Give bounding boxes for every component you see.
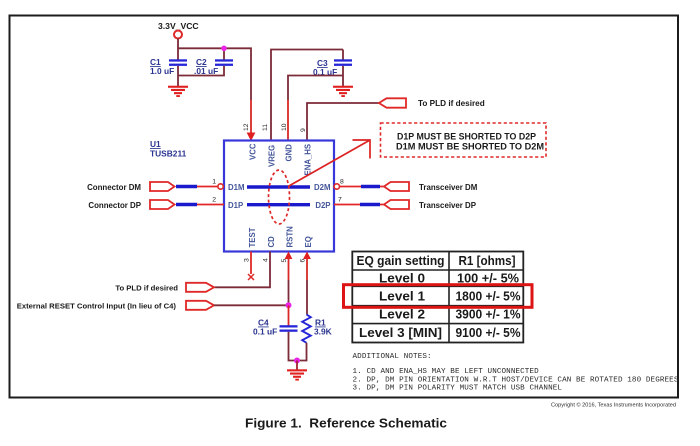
pin number 12 [243,123,250,131]
svg-text:D1P MUST BE SHORTED TO D2P: D1P MUST BE SHORTED TO D2P [397,132,536,142]
pin name EQ [304,236,313,247]
svg-text:0.1 uF: 0.1 uF [253,327,277,337]
junction dot ground node [294,358,300,364]
svg-text:100 +/- 5%: 100 +/- 5% [457,270,519,285]
table row Level 1 [379,288,521,303]
wire VREG pin 11 up and right to C3 [271,50,343,141]
R1 value label [314,318,332,337]
svg-text:3. DP, DM PIN POLARITY MUST MA: 3. DP, DM PIN POLARITY MUST MATCH USB CH… [353,384,563,392]
connector symbol Transceiver DM [384,182,409,191]
pin 12 arrowhead into IC [247,133,256,142]
svg-text:Connector DM: Connector DM [87,183,141,192]
EQ gain table grid [352,252,523,343]
svg-text:3.9K: 3.9K [314,327,332,337]
table row Level 0 [379,270,519,285]
svg-text:.01 uF: .01 uF [194,66,218,76]
pin number 2 [212,197,216,204]
svg-text:4: 4 [263,258,270,262]
wire pin 2 blue segment [176,203,197,207]
dashed note box [381,123,547,157]
svg-text:RSTN: RSTN [286,226,295,248]
pin 6 arrowhead into IC [303,252,311,260]
connector symbol To PLD (bottom) [186,283,214,292]
wire pin 5 RSTN down [288,257,290,305]
capacitor C2 [215,59,233,66]
wire C3 top [342,50,344,61]
ground under C3 [333,86,353,97]
pin name GND [285,144,294,162]
pin 3 no-connect X [248,274,254,280]
svg-text:GND: GND [285,144,294,162]
C1 value label [150,57,174,76]
pin name CD [267,236,276,248]
svg-text:Level 3 [MIN]: Level 3 [MIN] [359,325,442,340]
svg-text:Level 2: Level 2 [379,307,425,322]
wire C1 bottom to ground [177,66,179,86]
svg-text:ENA_HS: ENA_HS [304,144,313,176]
wire pin 2 [197,204,224,206]
wire ground stub [296,361,298,370]
wire C4 bottom [289,332,298,361]
resistor R1 zigzag [302,315,311,343]
svg-text:To PLD if desired: To PLD if desired [115,283,178,292]
connector symbol Connector DP [150,200,175,209]
svg-text:TUSB211: TUSB211 [150,149,187,159]
svg-text:6: 6 [300,259,307,263]
pin name TEST [248,227,257,247]
connector symbol Transceiver DP [384,200,409,209]
capacitor C4 [280,325,298,332]
wire GND pin 10 up and right to C3 ground net [288,76,343,141]
wire pin 1 blue segment [176,185,197,189]
svg-text:U1: U1 [150,139,161,149]
C4 value label [253,318,277,337]
pin name VCC [249,143,258,160]
svg-text:Transceiver DP: Transceiver DP [419,201,476,210]
label Connector DM [87,183,141,192]
label External RESET Control Input [17,301,177,310]
figure caption [245,416,447,431]
internal bus D1P to D2P [247,203,310,206]
op-amp U1 TUSB211 IC body [224,141,334,252]
pin number 11 [262,124,269,131]
svg-text:2: 2 [212,197,216,204]
pin number 1 [212,179,216,186]
net 3.3V_VCC label [158,21,199,31]
svg-text:EQ gain setting: EQ gain setting [357,253,445,268]
pin number 3 [244,258,251,262]
annotation arrow to note box [288,140,370,187]
svg-text:D1P: D1P [228,201,243,210]
wire RSTN node down to C4 [288,305,290,325]
additional notes heading [353,353,432,361]
pin number 4 [263,258,270,262]
table header EQ gain setting [357,253,516,268]
junction dot RSTN node [286,302,292,308]
svg-text:10: 10 [281,123,288,131]
svg-text:3: 3 [244,258,251,262]
pin name D2P [315,201,330,210]
wire pin 8 [340,186,385,188]
VCC terminal circle [174,31,182,39]
svg-text:CD: CD [267,236,276,248]
svg-text:D1M MUST BE SHORTED TO D2M: D1M MUST BE SHORTED TO D2M [396,142,544,152]
C3 value label [313,58,337,77]
svg-text:D2P: D2P [315,201,330,210]
U1 reference label [150,139,187,159]
svg-text:Connector DP: Connector DP [88,201,141,210]
wire R1 bottom [297,343,307,361]
connector To PLD (top) [379,98,406,107]
pin 8 no-connect circle [334,184,339,189]
wire pin 7 [334,204,384,206]
svg-text:1800 +/- 5%: 1800 +/- 5% [456,288,521,303]
wire C3 bottom to ground [342,66,344,86]
pin number 6 [300,259,307,263]
junction dot C2/VCC [221,46,227,52]
svg-text:D2M: D2M [314,183,330,192]
capacitor C3 [334,59,352,66]
svg-text:VREG: VREG [268,145,277,167]
pin 5 arrowhead into IC [285,252,293,260]
wire pin 1 [197,186,218,188]
table row Level 3 [MIN] [359,325,521,340]
pin number 8 [340,179,344,186]
pin 1 no-connect circle [218,184,223,189]
svg-text:ADDITIONAL NOTES:: ADDITIONAL NOTES: [353,353,432,361]
svg-text:11: 11 [262,124,269,131]
wire VCC main horizontal to pin 12 [178,48,251,134]
wire VCC circle down to C1 [177,39,179,61]
svg-text:External RESET Control Input (: External RESET Control Input (In lieu of… [17,301,177,310]
wire pin 3 stub [250,252,252,275]
label Transceiver DM [419,183,478,192]
additional notes line 2 [353,376,679,384]
ground under C4/R1 [287,369,307,380]
svg-text:Figure 1. Reference Schematic: Figure 1. Reference Schematic [245,416,447,431]
svg-text:7: 7 [338,197,342,204]
pin name D2M [314,183,330,192]
svg-text:R1 [ohms]: R1 [ohms] [459,253,516,268]
svg-text:EQ: EQ [304,236,313,247]
svg-text:5: 5 [281,259,288,263]
svg-text:3.3V_VCC: 3.3V_VCC [158,21,199,31]
table row Level 2 [379,307,521,322]
table highlight box Level 1 [344,285,533,308]
connector symbol Connector DM [150,182,175,191]
wire pin 6 EQ down to R1 [306,257,308,315]
svg-text:2. DP, DM PIN ORIENTATION W.R.: 2. DP, DM PIN ORIENTATION W.R.T HOST/DEV… [353,376,679,384]
pin number 10 [281,123,288,131]
svg-text:TEST: TEST [248,227,257,247]
wire C2 bottom to C1 net [178,66,224,76]
svg-text:12: 12 [243,123,250,131]
svg-text:9100 +/- 5%: 9100 +/- 5% [456,325,521,340]
copyright line [551,402,676,409]
label To PLD if desired (top) [418,99,485,108]
pin name ENA_HS [304,144,313,176]
pin name D1M [228,183,244,192]
svg-text:8: 8 [340,179,344,186]
pin name VREG [268,145,277,167]
svg-text:Level 1: Level 1 [379,288,425,303]
additional notes line 1 [353,368,540,376]
label Connector DP [88,201,141,210]
svg-text:3900 +/- 1%: 3900 +/- 1% [456,307,521,322]
connector symbol External RESET [186,301,214,310]
wire C2 top branch [223,48,225,60]
svg-text:Transceiver DM: Transceiver DM [419,183,478,192]
svg-text:1: 1 [212,179,216,186]
additional notes line 3 [353,384,563,392]
label To PLD if desired (bottom) [115,283,178,292]
wire pin 4 CD down and left [215,252,271,288]
pin name D1P [228,201,243,210]
wire ENA_HS pin 9 up and right [307,103,379,140]
svg-text:1. CD AND ENA_HS MAY BE LEFT U: 1. CD AND ENA_HS MAY BE LEFT UNCONNECTED [353,368,540,376]
svg-text:To PLD if desired: To PLD if desired [418,99,485,108]
ground under C1 [168,86,188,97]
wire pin 7 blue segment [360,203,380,207]
capacitor C1 [169,59,187,66]
svg-text:VCC: VCC [249,143,258,160]
pin number 5 [281,259,288,263]
svg-text:Copyright © 2016, Texas Instru: Copyright © 2016, Texas Instruments Inco… [551,402,676,409]
pin name RSTN [286,226,295,248]
internal bus D1M to D2M [247,185,310,188]
svg-text:D1M: D1M [228,183,244,192]
C2 value label [194,57,218,76]
svg-text:1.0 uF: 1.0 uF [150,66,174,76]
label Transceiver DP [419,201,476,210]
svg-text:Level 0: Level 0 [379,270,425,285]
pin number 9 [300,128,307,132]
dashed highlight ellipse [269,170,290,224]
pin number 7 [338,197,342,204]
svg-text:9: 9 [300,128,307,132]
wire pin 8 blue segment [361,185,380,189]
wire External RESET to RSTN [214,304,289,306]
